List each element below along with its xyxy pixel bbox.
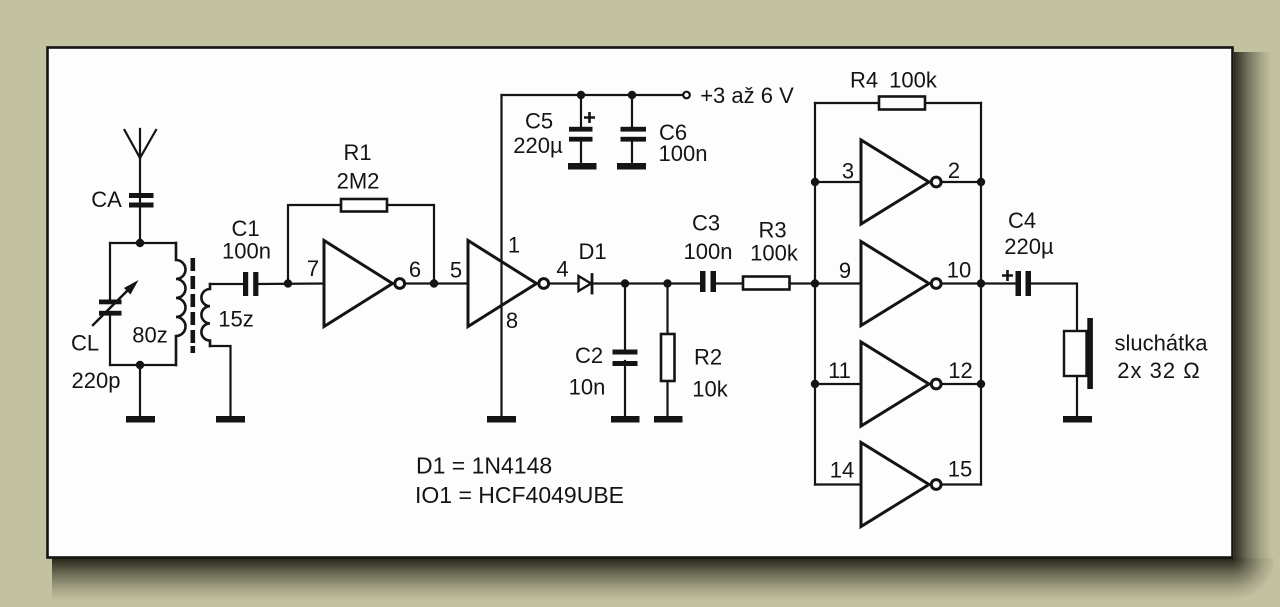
panel drop shadow	[52, 558, 1234, 602]
svg-text:3: 3	[842, 159, 854, 184]
R4 loop top wire	[815, 102, 981, 104]
svg-text:10n: 10n	[569, 375, 606, 400]
antenna	[125, 129, 157, 243]
svg-text:C4: C4	[1008, 208, 1036, 233]
wire tank top	[110, 242, 176, 244]
node tank bottom	[136, 361, 144, 369]
output bus nodes	[977, 178, 985, 388]
wire C4 to headphones	[1031, 284, 1077, 332]
resistor R3	[743, 277, 790, 290]
svg-text:220p: 220p	[72, 368, 121, 393]
input bus	[814, 103, 816, 485]
resistor R2 wires	[666, 284, 668, 417]
svg-text:100n: 100n	[684, 239, 733, 264]
resistor R1	[341, 199, 387, 212]
inductor 15z (secondary)	[201, 284, 210, 346]
capacitor C2 wires	[624, 284, 626, 417]
capacitor C4 plates	[1016, 271, 1032, 296]
ground (headphones)	[1063, 416, 1092, 423]
op-amp U1B inverter (pins 5-4)	[468, 241, 549, 327]
wire C3 to R3	[716, 282, 743, 284]
svg-text:C3: C3	[692, 211, 720, 236]
ground (U1B pin 8)	[487, 416, 516, 423]
svg-text:IO1 = HCF4049UBE: IO1 = HCF4049UBE	[415, 482, 624, 508]
diode D1	[579, 275, 593, 294]
node pin7 input	[284, 279, 292, 287]
headphones transducer	[1064, 318, 1093, 389]
svg-text:2: 2	[948, 158, 960, 183]
svg-text:100k: 100k	[750, 241, 799, 266]
svg-text:7: 7	[307, 256, 319, 281]
inverter U1F (pins 14-15)	[815, 443, 981, 527]
capacitor C6 plates	[621, 127, 647, 142]
svg-text:R2: R2	[694, 345, 722, 370]
wire U1B power vertical pin1-pin8	[500, 95, 502, 416]
inductor L1 80z (primary)	[176, 243, 186, 365]
svg-text:100n: 100n	[222, 239, 271, 264]
svg-text:sluchátka: sluchátka	[1115, 331, 1209, 356]
svg-text:C1: C1	[231, 216, 259, 241]
wire tank to ground	[139, 365, 141, 416]
wire U1B out to D1	[551, 282, 579, 284]
svg-text:+3 až 6 V: +3 až 6 V	[700, 83, 794, 108]
svg-text:D1 = 1N4148: D1 = 1N4148	[416, 453, 552, 479]
svg-text:5: 5	[450, 258, 462, 283]
svg-text:C5: C5	[525, 109, 553, 134]
wire secondary bottom	[210, 346, 231, 416]
ground (C5)	[568, 163, 597, 170]
svg-text:CA: CA	[91, 187, 122, 212]
resistor R2	[661, 334, 675, 381]
svg-text:100k: 100k	[889, 68, 938, 93]
svg-text:80z: 80z	[132, 323, 167, 348]
ground (C2)	[611, 416, 640, 423]
node C6 rail	[628, 91, 636, 99]
svg-text:12: 12	[948, 358, 972, 383]
capacitor C5 wires	[580, 95, 582, 163]
svg-text:4: 4	[556, 257, 568, 282]
wire secondary to C1	[210, 283, 243, 285]
wire feedback left	[288, 205, 341, 284]
capacitor C3 plates	[700, 271, 716, 292]
capacitor C6 wires	[631, 95, 633, 163]
svg-text:9: 9	[839, 258, 851, 283]
C4 polarity plus	[1002, 270, 1013, 281]
capacitor CL (variable)	[93, 243, 139, 365]
wire feedback right	[387, 205, 434, 284]
wire C1 to node	[258, 282, 324, 285]
inverter U1C (pins 3-2)	[815, 140, 981, 224]
svg-text:100n: 100n	[659, 141, 708, 166]
capacitor C1	[243, 272, 258, 296]
wire headphones to ground	[1076, 376, 1078, 416]
capacitor C2 plates	[613, 350, 638, 367]
svg-text:15z: 15z	[218, 307, 253, 332]
capacitor CA	[129, 193, 154, 208]
input bus nodes	[811, 178, 819, 388]
svg-text:D1: D1	[578, 239, 606, 264]
wire tank bottom	[110, 364, 176, 366]
svg-text:15: 15	[948, 457, 972, 482]
wire U1A out to U1B	[407, 282, 469, 284]
wire D1 to nodes	[593, 282, 700, 284]
svg-text:8: 8	[506, 308, 518, 333]
svg-text:220µ: 220µ	[513, 133, 563, 158]
svg-text:6: 6	[409, 257, 421, 282]
node pin6 output	[430, 279, 438, 287]
supply terminal	[683, 92, 690, 99]
wire R3 to input bus	[790, 282, 816, 284]
inverter U1D (pins 9-10)	[815, 242, 981, 326]
schematic panel	[48, 48, 1233, 558]
op-amp U1A inverter (pins 7-6)	[324, 241, 405, 327]
svg-text:2x 32 Ω: 2x 32 Ω	[1117, 358, 1200, 383]
transformer core	[191, 258, 196, 353]
svg-text:C2: C2	[575, 343, 603, 368]
svg-text:10k: 10k	[692, 377, 728, 402]
svg-text:R4: R4	[850, 68, 878, 93]
node C5 rail	[577, 91, 585, 99]
svg-text:11: 11	[828, 358, 851, 383]
resistor R4	[879, 97, 925, 110]
capacitor C5 plates	[569, 127, 593, 142]
node R2	[663, 279, 671, 287]
output bus	[980, 103, 982, 485]
node A (antenna/tank junction)	[136, 239, 144, 247]
svg-text:14: 14	[830, 458, 854, 483]
svg-text:1: 1	[508, 233, 520, 258]
svg-text:R3: R3	[758, 218, 786, 243]
ground (secondary)	[216, 416, 245, 423]
svg-text:10: 10	[947, 258, 971, 283]
ground (C6)	[617, 163, 646, 170]
svg-text:220µ: 220µ	[1004, 234, 1054, 259]
svg-text:2M2: 2M2	[337, 169, 380, 194]
node C2	[621, 279, 629, 287]
wire output bus to C4	[981, 282, 1016, 284]
supply rail +3..6V	[502, 94, 684, 96]
svg-text:CL: CL	[71, 331, 99, 356]
inverter U1E (pins 11-12)	[815, 342, 981, 426]
ground (tank)	[126, 416, 155, 423]
svg-text:R1: R1	[343, 140, 371, 165]
ground (R2)	[654, 416, 683, 423]
C5 polarity plus	[584, 112, 595, 123]
